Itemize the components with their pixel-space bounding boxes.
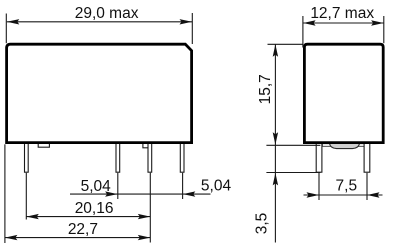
svg-text:7,5: 7,5 — [336, 178, 358, 195]
svg-text:5,04: 5,04 — [201, 178, 232, 195]
bottom rib notch at pin 3 — [143, 143, 150, 148]
svg-text:20,16: 20,16 — [75, 200, 114, 217]
pin 2 front view — [116, 142, 120, 172]
svg-text:5,04: 5,04 — [81, 178, 112, 195]
relay body front view — [7, 44, 192, 142]
dimension line 7,5 — [304, 192, 383, 197]
vertical dimension line 15,7 and 3,5 — [273, 44, 278, 242]
dimension line 29,0 max — [7, 19, 192, 24]
svg-text:22,7: 22,7 — [68, 221, 98, 238]
dimension line 20,16 — [26, 214, 150, 219]
extension line bottom of side body for 15,7 / 3,5 — [266, 144, 320, 146]
pin left side view — [316, 142, 322, 172]
extension line left of 29,0 dimension — [5, 14, 7, 44]
extension line right of 29,0 dimension — [191, 13, 193, 44]
pin right extension line below side view — [366, 173, 368, 200]
dimension line 12,7 max — [303, 20, 384, 25]
pin 3 extension line below — [149, 173, 151, 243]
coil bump under side body: middle arc — [330, 144, 360, 149]
coil bump under side body: outer shallow step — [323, 143, 366, 147]
svg-text:3,5: 3,5 — [253, 213, 270, 235]
extension line pin bottom for 3,5 — [266, 172, 320, 174]
pin left extension line below side view — [318, 173, 320, 200]
pin 3 front view — [148, 142, 152, 172]
bottom rib notch left — [38, 143, 49, 147]
extension line left body edge down — [4, 144, 6, 243]
extension line right of 12,7 dimension — [383, 16, 385, 43]
pin 4 front view — [180, 142, 184, 172]
relay body side view — [304, 44, 383, 142]
extension line top of side body for 15,7 — [268, 43, 303, 45]
svg-text:15,7: 15,7 — [257, 74, 274, 104]
svg-text:29,0 max: 29,0 max — [75, 5, 139, 22]
pin 4 extension line below — [182, 173, 184, 199]
pin right side view — [364, 142, 370, 172]
dimension line 5,04 pair — [70, 191, 211, 196]
pin 2 extension line below — [117, 173, 119, 199]
extension line left of 12,7 dimension — [302, 16, 304, 48]
pin 1 front view — [25, 142, 29, 172]
pin 1 extension line below — [25, 173, 27, 220]
svg-text:12,7 max: 12,7 max — [310, 5, 374, 22]
dimension line 22,7 — [5, 235, 150, 240]
